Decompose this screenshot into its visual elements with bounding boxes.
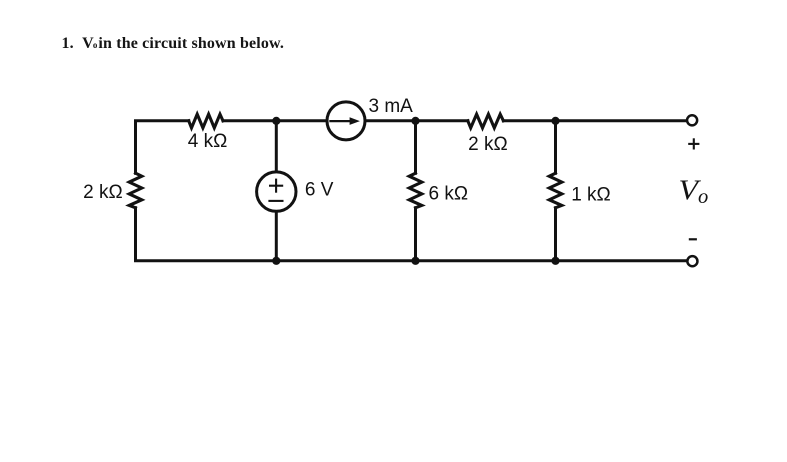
minus sign at output bbox=[689, 238, 697, 240]
label 2 kOhm (top resistor) bbox=[468, 134, 508, 155]
resistor 6k zigzag bbox=[409, 173, 422, 208]
label 6 kOhm bbox=[429, 183, 469, 204]
resistor 2k left zigzag bbox=[129, 173, 142, 208]
svg-text:Vo: Vo bbox=[679, 176, 709, 208]
voltage source minus sign bbox=[268, 200, 283, 202]
output terminal top (open circle) bbox=[687, 115, 697, 125]
node A junction dot (top, voltage source branch) bbox=[272, 117, 280, 125]
plus sign at output bbox=[688, 138, 699, 149]
wire branch: node A down to voltage source bbox=[275, 121, 278, 171]
wire: voltage source to bottom wire bbox=[275, 213, 278, 261]
wire bottom: node A to bottom terminal bbox=[276, 259, 686, 262]
wire top: 2k resistor to top terminal bbox=[503, 119, 686, 122]
label 2 kOhm (left resistor) bbox=[83, 182, 123, 203]
label 4 kOhm bbox=[188, 131, 228, 152]
label 1 kOhm bbox=[571, 184, 611, 205]
current source arrow bbox=[329, 117, 360, 125]
node B junction dot (top, 6k branch) bbox=[411, 117, 419, 125]
resistor 2k zigzag (top right) bbox=[468, 114, 504, 128]
resistor 4k zigzag (top) bbox=[189, 114, 223, 128]
junction dot bottom 1k branch bbox=[551, 257, 559, 265]
current source circle 3 mA bbox=[327, 102, 365, 140]
voltage source circle 6V bbox=[257, 172, 296, 211]
junction dot bottom 6k branch bbox=[411, 257, 419, 265]
wire: 1k resistor to bottom wire bbox=[554, 208, 557, 261]
label 3 mA bbox=[369, 96, 414, 117]
node C junction dot (top, 1k branch) bbox=[551, 117, 559, 125]
wire top: 4k to current source bbox=[223, 119, 326, 122]
svg-text:6 kΩ: 6 kΩ bbox=[429, 183, 469, 204]
output terminal bottom (open circle) bbox=[687, 256, 697, 266]
problem title text bbox=[62, 35, 284, 53]
label 6 V bbox=[305, 180, 334, 201]
svg-text:4 kΩ: 4 kΩ bbox=[188, 131, 228, 152]
wire branch: node B down to 6k resistor bbox=[414, 121, 417, 173]
svg-text:1 kΩ: 1 kΩ bbox=[571, 184, 611, 205]
junction dot bottom voltage source branch bbox=[272, 257, 280, 265]
wire: 6k resistor to bottom wire bbox=[414, 208, 417, 261]
wire branch: node C down to 1k resistor bbox=[554, 121, 557, 173]
wire top-left segment with left corner bbox=[136, 121, 189, 173]
voltage source plus sign bbox=[269, 179, 283, 193]
wire left-bottom segment with corner bbox=[136, 208, 277, 261]
resistor 1k zigzag bbox=[549, 173, 562, 208]
svg-text:6 V: 6 V bbox=[305, 180, 334, 201]
svg-text:2 kΩ: 2 kΩ bbox=[83, 182, 123, 203]
svg-text:3 mA: 3 mA bbox=[369, 96, 414, 117]
svg-text:2 kΩ: 2 kΩ bbox=[468, 134, 508, 155]
label Vo output voltage bbox=[679, 176, 709, 208]
wire top: current source to 2k resistor bbox=[367, 119, 468, 122]
